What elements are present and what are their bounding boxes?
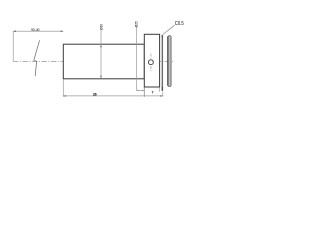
svg-text:36: 36: [93, 93, 97, 97]
svg-text:7: 7: [152, 90, 154, 94]
svg-text:Ø30: Ø30: [99, 24, 103, 30]
svg-text:C0.5: C0.5: [175, 21, 184, 27]
svg-text:90-40: 90-40: [31, 28, 40, 32]
svg-text:Ø25: Ø25: [135, 21, 139, 27]
